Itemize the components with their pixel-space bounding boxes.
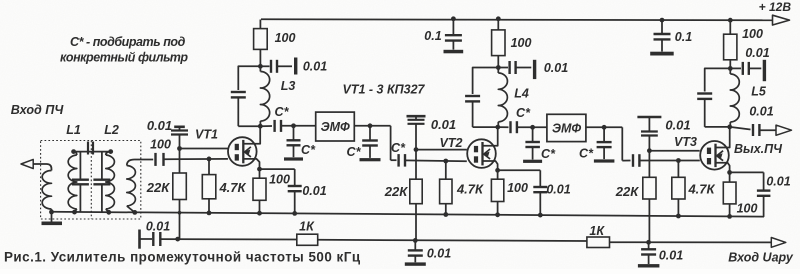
svg-text:4.7К: 4.7К xyxy=(687,182,715,197)
svg-text:0.01: 0.01 xyxy=(302,184,326,198)
svg-text:1К: 1К xyxy=(299,220,315,234)
svg-text:0.01: 0.01 xyxy=(431,117,456,132)
svg-text:0.01: 0.01 xyxy=(665,118,690,133)
svg-text:0.1: 0.1 xyxy=(675,30,692,44)
svg-text:100: 100 xyxy=(507,181,528,195)
svg-text:100: 100 xyxy=(737,202,758,216)
svg-text:C*: C* xyxy=(275,105,290,119)
svg-text:+ 12В: + 12В xyxy=(759,0,792,14)
svg-text:0.01: 0.01 xyxy=(745,46,769,60)
svg-text:22К: 22К xyxy=(146,180,170,195)
svg-text:4.7К: 4.7К xyxy=(456,182,484,197)
svg-text:0.01: 0.01 xyxy=(766,175,790,189)
svg-text:Вых.ПЧ: Вых.ПЧ xyxy=(734,142,783,156)
svg-text:конкретный фильтр: конкретный фильтр xyxy=(60,51,188,65)
svg-text:L1: L1 xyxy=(66,123,81,137)
svg-text:100: 100 xyxy=(269,173,290,187)
svg-text:100: 100 xyxy=(742,27,763,41)
svg-text:VT3: VT3 xyxy=(674,135,697,149)
svg-text:C*: C* xyxy=(541,147,556,161)
svg-text:Рис.1. Усилитель промежуточной: Рис.1. Усилитель промежуточной частоты 5… xyxy=(4,250,361,265)
svg-text:4.7К: 4.7К xyxy=(218,180,246,195)
svg-text:VT1 - 3 КП327: VT1 - 3 КП327 xyxy=(343,83,426,97)
svg-text:L2: L2 xyxy=(104,123,119,137)
svg-text:0.01: 0.01 xyxy=(659,249,683,263)
svg-text:Вход Uару: Вход Uару xyxy=(728,251,794,265)
svg-text:0.01: 0.01 xyxy=(303,60,327,74)
svg-text:100: 100 xyxy=(511,36,532,50)
svg-text:0.01: 0.01 xyxy=(546,183,570,197)
svg-text:VT2: VT2 xyxy=(440,136,463,150)
svg-text:Вход ПЧ: Вход ПЧ xyxy=(11,103,65,117)
svg-text:100: 100 xyxy=(150,138,171,152)
svg-text:0.01: 0.01 xyxy=(146,220,170,234)
svg-text:0.01: 0.01 xyxy=(749,105,773,119)
svg-text:0.01: 0.01 xyxy=(544,61,568,75)
svg-text:100: 100 xyxy=(275,31,296,45)
svg-text:ЭМФ: ЭМФ xyxy=(552,121,581,135)
svg-text:C*: C* xyxy=(579,147,594,161)
svg-text:C*: C* xyxy=(391,141,406,155)
svg-text:0.01: 0.01 xyxy=(427,247,451,261)
svg-text:ЭМФ: ЭМФ xyxy=(321,120,350,134)
svg-text:C* - подбирать под: C* - подбирать под xyxy=(70,35,186,49)
svg-text:22К: 22К xyxy=(384,184,408,199)
svg-text:VT1: VT1 xyxy=(195,128,218,142)
svg-text:0.1: 0.1 xyxy=(424,29,441,43)
svg-text:L3: L3 xyxy=(281,79,296,93)
svg-text:C*: C* xyxy=(301,143,316,157)
svg-text:C*: C* xyxy=(516,106,531,120)
svg-text:1К: 1К xyxy=(589,224,605,238)
svg-text:22К: 22К xyxy=(615,184,639,199)
svg-text:C*: C* xyxy=(347,145,362,159)
svg-text:L5: L5 xyxy=(751,85,767,99)
svg-text:0.01: 0.01 xyxy=(147,118,172,133)
svg-text:L4: L4 xyxy=(514,87,529,101)
